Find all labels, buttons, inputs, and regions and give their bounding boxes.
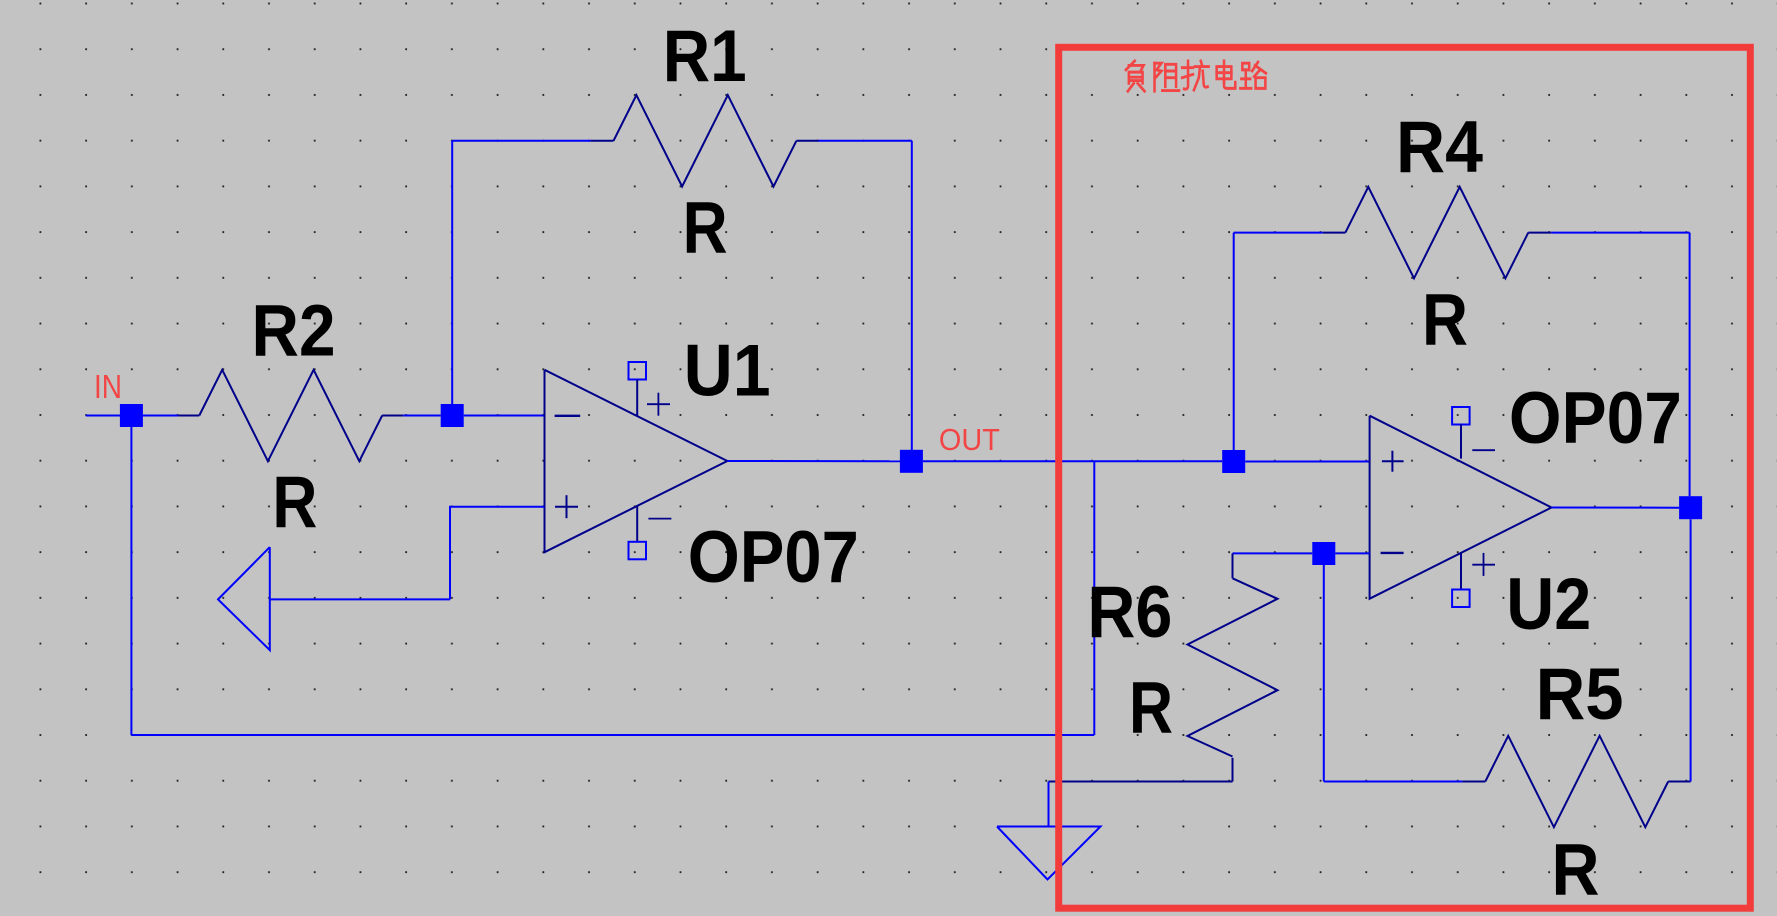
junction U2 non-inverting node [1222, 450, 1245, 473]
junction OUT node [900, 450, 923, 473]
wire junction to U2 non-inverting input [1245, 461, 1369, 463]
resistor R1 [591, 95, 819, 186]
wire feedback: bottom horizontal [131, 734, 1094, 736]
ground symbol [997, 827, 1101, 880]
wire R6 bottom to ground [1049, 781, 1233, 783]
U1 V- power pin square [629, 542, 647, 560]
U1 V- minus mark [648, 518, 671, 520]
U1 V+ power pin stem [636, 380, 638, 417]
svg-text:R: R [272, 462, 317, 543]
wire R1 top left horizontal [452, 140, 590, 142]
wire junction to U1 inverting input [464, 415, 545, 417]
wire R4 right [1551, 232, 1689, 234]
wire R1 down to OUT node [911, 141, 913, 450]
svg-text:R: R [683, 188, 728, 269]
svg-text:U2: U2 [1506, 564, 1591, 645]
wire R1 right to corner [818, 140, 911, 142]
svg-text:OP07: OP07 [1509, 378, 1682, 459]
svg-text:U1: U1 [684, 330, 771, 411]
junction IN node [120, 404, 143, 427]
wire R4 right vertical down to output node [1689, 233, 1691, 497]
resistor R5 [1462, 736, 1690, 827]
U2 V+ plus mark [1472, 553, 1495, 576]
wire OUT to NIC input junction [923, 460, 1222, 462]
svg-text:R: R [1552, 829, 1600, 910]
wire R4 left vertical [1233, 233, 1235, 450]
wire R6 top horizontal [1233, 552, 1313, 554]
U1 V+ power pin square [629, 362, 647, 380]
wire non-inverting input path [270, 507, 545, 600]
U2 V+ power pin square [1452, 590, 1470, 608]
junction U2 inverting node [1312, 542, 1335, 565]
svg-text:R6: R6 [1087, 572, 1172, 653]
U1 non-inverting input plus mark [555, 495, 578, 518]
wire U1 output [727, 460, 900, 462]
ground stem [1048, 782, 1050, 827]
resistor R6 (vertical) [1188, 553, 1278, 781]
U2 V+ power pin stem [1460, 553, 1462, 590]
svg-text:OUT: OUT [939, 422, 1000, 457]
U2 V- power pin stem [1460, 425, 1462, 459]
wire feedback: up to OUT line [1093, 461, 1095, 735]
svg-text:R: R [1422, 279, 1468, 360]
U1 V+ plus mark [647, 393, 670, 416]
svg-text:R5: R5 [1536, 654, 1624, 735]
U2 V- power pin square [1452, 407, 1470, 425]
wire IN to R2 [143, 415, 178, 417]
U2 inverting minus mark [1381, 552, 1404, 554]
junction U1 inverting input node [441, 404, 464, 427]
op-amp U1 triangle [545, 370, 728, 552]
wire U2 output [1552, 507, 1680, 509]
wire IN left stub [86, 415, 132, 417]
U2 non-inverting plus mark [1382, 451, 1404, 472]
wire R4 top left [1234, 232, 1323, 234]
U1 V- power pin stem [636, 506, 638, 542]
wire R2 to inverting junction [403, 415, 441, 417]
wire R1 left vertical [451, 141, 453, 404]
resistor R4 [1323, 187, 1552, 278]
resistor R2 [178, 370, 403, 461]
op-amp U2 triangle [1370, 416, 1552, 599]
ground arrow (U1 non-inverting reference) [218, 547, 270, 650]
svg-text:R4: R4 [1396, 107, 1483, 188]
wire junction to U2 inverting input [1335, 552, 1369, 554]
svg-text:R2: R2 [252, 290, 336, 371]
svg-text:OP07: OP07 [688, 517, 859, 598]
wire R5 right vertical up to output node [1690, 519, 1692, 781]
svg-text:R: R [1129, 668, 1173, 749]
svg-text:R1: R1 [663, 16, 747, 97]
junction U2 output node [1679, 496, 1702, 519]
wire feedback: IN junction down [130, 427, 132, 735]
wire inverting junction down [1323, 565, 1325, 782]
U1 inverting input minus mark [555, 415, 581, 417]
U2 V- minus mark [1472, 449, 1495, 451]
label 负阻抗电路 (negative impedance circuit) [1126, 61, 1266, 91]
red highlight box (negative impedance circuit region) [1059, 47, 1751, 908]
wire to R5 left [1324, 781, 1463, 783]
svg-text:IN: IN [94, 368, 122, 405]
